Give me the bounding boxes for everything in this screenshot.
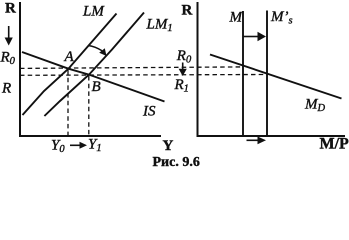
svg-text:IS: IS — [142, 104, 156, 120]
dashed vertical from B to Y1 — [88, 76, 90, 135]
svg-text:LM: LM — [82, 4, 105, 20]
left panel x-axis — [19, 135, 161, 137]
svg-text:A: A — [64, 49, 75, 65]
LM curve — [23, 14, 117, 116]
money supply M's vertical — [266, 11, 268, 137]
LM1 curve — [44, 13, 144, 117]
svg-text:Y: Y — [163, 138, 174, 154]
dashed line R1 level (spans both panels) — [20, 74, 267, 77]
svg-text:R: R — [182, 3, 193, 19]
right panel y-axis — [197, 2, 199, 137]
svg-text:R: R — [1, 81, 11, 97]
shift arrow LM to LM1 — [88, 46, 102, 51]
svg-text:R: R — [5, 1, 16, 17]
bottom arrow under right x-axis — [247, 139, 259, 141]
dashed vertical from A to Y0 — [67, 70, 69, 135]
arrow Y0 to Y1 — [70, 144, 81, 146]
MD money demand curve — [210, 55, 342, 99]
svg-text:B: B — [92, 79, 101, 95]
left panel y-axis — [19, 2, 21, 137]
down arrow under R — [8, 26, 10, 39]
svg-text:M: M — [229, 10, 244, 26]
down arrow R0 to R1 — [182, 63, 184, 70]
top arrow M to M's — [244, 36, 259, 38]
svg-text:M/P: M/P — [320, 136, 349, 153]
money supply M vertical — [242, 11, 244, 136]
dashed line R0 level (spans both panels) — [20, 67, 243, 69]
IS curve — [22, 52, 165, 102]
svg-text:Рис. 9.6: Рис. 9.6 — [153, 155, 200, 168]
right panel x-axis — [197, 135, 346, 137]
